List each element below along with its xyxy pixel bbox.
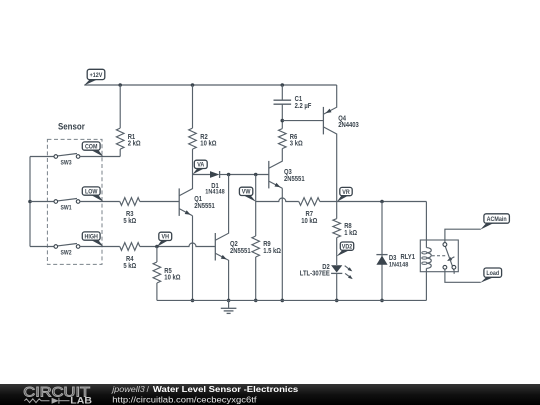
sensor enclosure (dashed box) xyxy=(47,139,102,264)
flag COM xyxy=(82,142,103,157)
relay coil xyxy=(422,202,431,301)
resistor R9 xyxy=(252,202,260,301)
transistor Q1 xyxy=(179,175,192,216)
CircuitLab logo wordmark xyxy=(23,384,92,405)
wire relay NC to Load xyxy=(445,269,481,282)
wire Q3 emitter to ground rail xyxy=(281,188,283,300)
flag VA xyxy=(193,160,208,174)
svg-text:VA: VA xyxy=(197,162,204,169)
node dot rail/C1 xyxy=(281,83,285,87)
switch SW1 xyxy=(54,199,80,204)
svg-text:5 kΩ: 5 kΩ xyxy=(123,263,136,270)
relay switch arm xyxy=(445,246,454,273)
label R9 xyxy=(263,241,281,255)
svg-text:VR: VR xyxy=(342,189,350,196)
resistor R5 xyxy=(153,247,161,301)
label R4 xyxy=(123,256,136,270)
label SW3 xyxy=(61,160,73,167)
resistor R3 xyxy=(120,198,140,206)
svg-text:3 kΩ: 3 kΩ xyxy=(290,141,303,148)
label R5 xyxy=(164,268,181,282)
svg-text:1 kΩ: 1 kΩ xyxy=(344,230,357,237)
node dot C1/R6/Q4 base xyxy=(281,119,285,123)
label R7 xyxy=(301,211,318,225)
wire relay common to ACMain xyxy=(445,229,481,242)
node dot Q2 emitter/rail xyxy=(227,299,231,303)
transistor Q4 xyxy=(323,85,336,202)
node dot rail/R2 xyxy=(191,83,195,87)
relay RLY1 body xyxy=(420,240,458,272)
wire SW3 left lead xyxy=(30,156,54,158)
svg-text:2 kΩ: 2 kΩ xyxy=(128,141,141,148)
diode D1 xyxy=(193,171,229,178)
wire LOW row xyxy=(80,201,120,203)
wire VW row (hop over Q3 emitter) xyxy=(256,198,299,202)
node dot rail/R1 xyxy=(118,83,122,87)
transistor Q2 xyxy=(215,175,228,301)
wire VA row xyxy=(229,174,269,176)
switch SW2 xyxy=(54,244,80,249)
wire VH row to Q2 base (hop over Q1 emitter) xyxy=(140,243,216,247)
svg-text:2.2 µF: 2.2 µF xyxy=(295,103,312,110)
label Q4 xyxy=(338,115,359,129)
flag VW xyxy=(239,187,256,202)
node dot R9/rail xyxy=(254,299,258,303)
svg-text:10 kΩ: 10 kΩ xyxy=(164,275,181,282)
label SW1 xyxy=(61,205,73,212)
label Q2 xyxy=(230,241,251,255)
wire R3 to Q1 base xyxy=(140,201,180,203)
svg-text:Load: Load xyxy=(486,270,499,277)
svg-text:jpowell3: jpowell3 xyxy=(111,384,145,394)
resistor R1 xyxy=(116,85,124,157)
logo resistor-diode icon xyxy=(24,398,69,404)
node dot VH junction xyxy=(155,245,159,249)
wire bottom rail xyxy=(157,299,427,301)
wire sensor common bus xyxy=(29,157,31,247)
label R8 xyxy=(344,223,357,237)
label D3 xyxy=(389,255,409,269)
svg-text:Sensor: Sensor xyxy=(58,120,85,131)
node dot D2/rail xyxy=(335,299,339,303)
svg-text:5 kΩ: 5 kΩ xyxy=(123,218,136,225)
svg-text:VD2: VD2 xyxy=(342,244,353,251)
flag VR xyxy=(337,187,352,201)
+12V supply flag xyxy=(84,69,105,85)
label Q1 xyxy=(194,196,215,210)
svg-text:SW1: SW1 xyxy=(61,205,73,212)
label R1 xyxy=(128,134,141,148)
resistor R7 xyxy=(299,198,320,206)
label D2 xyxy=(300,264,330,278)
svg-text:10 kΩ: 10 kΩ xyxy=(301,218,318,225)
relay actuator dashed link xyxy=(432,256,455,261)
transistor Q3 xyxy=(269,149,283,189)
resistor R6 xyxy=(279,121,287,149)
svg-text:VW: VW xyxy=(242,189,252,196)
flag HIGH xyxy=(82,232,103,247)
svg-text:2N5551: 2N5551 xyxy=(284,176,305,183)
flag VD2 xyxy=(337,242,354,256)
flag VH xyxy=(157,232,172,247)
node dot Q1 emitter/rail xyxy=(191,299,195,303)
label Q3 xyxy=(284,169,305,183)
svg-text:SW3: SW3 xyxy=(61,160,73,167)
svg-text:10 kΩ: 10 kΩ xyxy=(200,141,217,148)
wire Q4 base xyxy=(282,120,323,122)
label SW2 xyxy=(61,250,73,257)
svg-text:VH: VH xyxy=(162,234,170,241)
label C1 xyxy=(295,96,312,110)
svg-text:1.5 kΩ: 1.5 kΩ xyxy=(263,248,281,255)
svg-text:2N4403: 2N4403 xyxy=(338,122,359,129)
wire COM row xyxy=(80,156,120,158)
footer bar xyxy=(0,384,540,405)
node dot sensor bus / SW1 xyxy=(28,200,32,204)
label R3 xyxy=(123,211,136,225)
svg-text:http://circuitlab.com/cecbecyx: http://circuitlab.com/cecbecyxgc6tf xyxy=(112,395,257,405)
label R2 xyxy=(200,134,217,148)
wire SW2 left lead xyxy=(30,246,54,248)
resistor R4 xyxy=(120,243,140,251)
wire R7 to VR xyxy=(320,201,337,203)
svg-text:2N5551: 2N5551 xyxy=(194,203,215,210)
svg-text:COM: COM xyxy=(85,143,98,150)
wire +12V top rail xyxy=(84,84,336,86)
wire HIGH row xyxy=(80,246,120,248)
flag ACMain xyxy=(480,214,509,230)
resistor R2 xyxy=(189,85,197,175)
svg-text:LAB: LAB xyxy=(70,395,92,405)
footer credit line xyxy=(111,384,298,404)
wire Q1 emitter to ground rail xyxy=(192,216,194,301)
svg-text:RLY1: RLY1 xyxy=(401,254,416,261)
relay contact NO xyxy=(452,265,456,269)
svg-text:ACMain: ACMain xyxy=(487,216,507,223)
wire SW1 left lead xyxy=(30,201,54,203)
flag LOW xyxy=(82,187,103,202)
flag Load xyxy=(480,268,501,283)
ground xyxy=(221,300,237,313)
svg-text:2N5551: 2N5551 xyxy=(230,248,251,255)
LED D2 xyxy=(331,265,353,300)
svg-text:LTL-307EE: LTL-307EE xyxy=(300,271,330,278)
node dot Q3 emitter/rail xyxy=(281,299,285,303)
wire VR row to relay xyxy=(337,201,427,203)
node dot VA/Q2 collector xyxy=(227,173,231,177)
relay contact common xyxy=(443,243,447,247)
svg-text:Water Level Sensor -Electronic: Water Level Sensor -Electronics xyxy=(153,384,299,394)
svg-text:1N4148: 1N4148 xyxy=(389,262,409,269)
svg-text:LOW: LOW xyxy=(85,188,98,195)
switch SW3 xyxy=(54,154,80,159)
svg-text:+12V: +12V xyxy=(90,72,103,79)
svg-text:1N4148: 1N4148 xyxy=(205,189,225,196)
resistor R8 xyxy=(333,202,341,266)
label Sensor xyxy=(58,120,85,131)
label D1 xyxy=(205,183,225,196)
relay contact NC xyxy=(443,265,447,269)
label RLY1 xyxy=(401,254,416,261)
label R6 xyxy=(290,134,303,148)
node dot VA/VW branch xyxy=(254,173,258,177)
svg-text:HIGH: HIGH xyxy=(85,233,99,240)
capacitor C1 xyxy=(274,85,292,121)
diode D3 xyxy=(376,202,387,301)
svg-text:SW2: SW2 xyxy=(61,250,73,257)
wire VA to VW node xyxy=(255,175,257,202)
node dot VR/D3 xyxy=(380,200,384,204)
node dot D3/rail xyxy=(380,299,384,303)
